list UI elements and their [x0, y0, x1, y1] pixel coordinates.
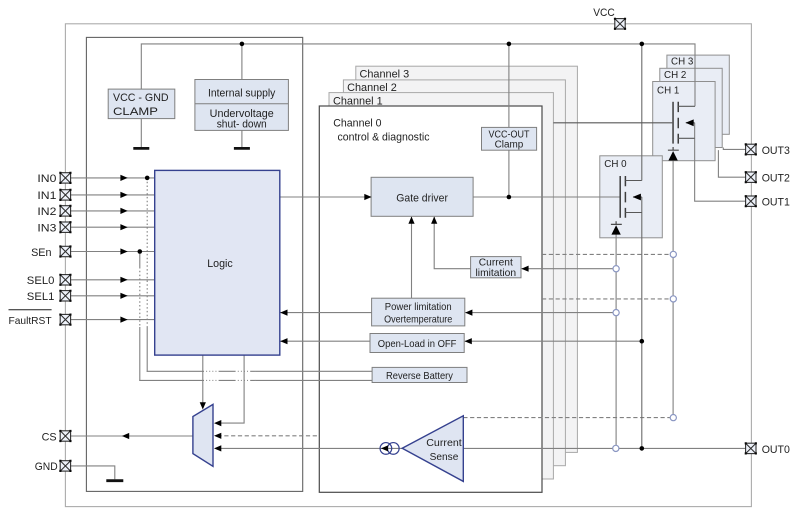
wire: reverse battery upper dash-dot — [187, 370, 256, 372]
pin VCC — [614, 18, 626, 30]
svg-text:Current: Current — [426, 438, 462, 449]
transistor CH1 body stub — [686, 122, 695, 124]
channel 0 box — [319, 106, 542, 492]
pin SEL1 — [59, 290, 71, 302]
channel 3 box — [356, 66, 578, 452]
svg-text:VCC: VCC — [593, 7, 615, 19]
svg-text:Internal supply: Internal supply — [208, 88, 276, 100]
svg-text:Channel 0: Channel 0 — [333, 118, 381, 130]
svg-text:Power limitation: Power limitation — [385, 302, 452, 313]
arrow: into gate driver — [364, 194, 371, 200]
svg-text:IN3: IN3 — [37, 223, 56, 235]
transistor CH0 body arrow — [633, 194, 641, 201]
svg-text:shut- down: shut- down — [217, 118, 267, 130]
node: rail-clamp junction — [507, 42, 512, 47]
svg-text:SEn: SEn — [31, 247, 51, 259]
pin IN0 — [59, 172, 71, 184]
transistor CH1 drain stub — [678, 105, 695, 107]
wire: CH0 drain to VCC rail — [641, 44, 643, 181]
arrow: SEL0 — [120, 277, 127, 283]
svg-text:Gate driver: Gate driver — [396, 192, 448, 204]
svg-text:IN0: IN0 — [37, 173, 56, 185]
wire: CH1 gate from channel 1 — [553, 122, 673, 124]
node: open-load source junction — [640, 339, 645, 344]
internal supply box — [195, 80, 289, 131]
node: clamp-gate junction — [507, 195, 512, 200]
current mirror circle right — [387, 443, 399, 455]
wire: CH1 diode sense column — [672, 161, 674, 415]
svg-text:Overtemperature: Overtemperature — [384, 315, 452, 326]
diode CH0 cathode tick — [611, 221, 622, 224]
open-load box — [370, 334, 464, 353]
wire: SEn bus elbow to reverse battery — [139, 379, 187, 381]
wire: logic to gate driver — [280, 196, 371, 198]
wire: CH0 sense to current limitation — [522, 268, 614, 270]
wire: CH2 to OUT2 — [718, 150, 745, 177]
node: rail-CH0 drain junction — [640, 42, 645, 47]
wire: IN1 to logic — [71, 194, 155, 196]
CH3 output stage box — [667, 55, 729, 134]
transistor CH0 drain stub — [625, 180, 641, 182]
current mirror circle left — [380, 443, 392, 455]
node: CH1 replica tap sense — [670, 415, 676, 421]
svg-text:Channel 2: Channel 2 — [347, 82, 397, 94]
pin GND — [59, 460, 71, 472]
pin CS — [59, 430, 71, 442]
arrow: into current limitation — [521, 266, 528, 272]
diode CH1 cathode tick — [668, 147, 679, 150]
svg-text:CH 0: CH 0 — [604, 159, 627, 170]
arrow: SEL1 — [120, 293, 127, 299]
channel 2 box — [343, 80, 565, 466]
diode CH1 body diode — [668, 151, 677, 160]
wire: CH0 source column — [641, 197, 643, 448]
wire: SEn to logic — [71, 251, 155, 253]
svg-text:SEL1: SEL1 — [27, 291, 55, 303]
svg-text:Logic: Logic — [207, 258, 233, 270]
svg-text:SEL0: SEL0 — [27, 275, 55, 287]
svg-text:IN2: IN2 — [37, 206, 56, 218]
svg-text:Reverse Battery: Reverse Battery — [386, 371, 454, 382]
svg-text:GND: GND — [35, 461, 58, 473]
wire: undervoltage to ground — [241, 130, 243, 147]
svg-text:OUT3: OUT3 — [762, 145, 790, 157]
wire: reverse battery lower dash-dot — [187, 379, 256, 381]
node: CH1 replica tap current limitation — [670, 251, 676, 257]
svg-text:CH 2: CH 2 — [664, 70, 687, 81]
wire: SEL1 to logic — [71, 295, 155, 297]
pin OUT3 — [745, 143, 757, 155]
svg-text:CS: CS — [42, 432, 57, 444]
svg-text:Channel 3: Channel 3 — [360, 68, 410, 80]
label FaultRST overline — [9, 309, 52, 311]
arrow: mux input 2 — [214, 433, 221, 439]
svg-text:CLAMP: CLAMP — [113, 106, 158, 118]
arrow: open-load into logic — [280, 338, 287, 344]
svg-text:OUT2: OUT2 — [762, 173, 790, 185]
wire: VCC-OUT clamp to gate line — [508, 150, 510, 197]
pin IN1 — [59, 189, 71, 201]
wire: logic to mux input 1 — [218, 355, 245, 423]
wire: IN0 dotted bus vertical — [146, 178, 148, 327]
wire: internal VCC rail — [141, 44, 695, 106]
channel 1 box — [329, 93, 553, 479]
wire: reverse battery upper solid — [256, 370, 372, 372]
wire: rail to VCC-OUT clamp — [508, 44, 510, 128]
arrow: mux input 1 — [214, 420, 221, 426]
wire: SEn dotted bus vertical — [139, 252, 141, 268]
svg-text:Clamp: Clamp — [495, 140, 524, 151]
wire: dashed replica sense line — [463, 417, 670, 419]
arrow: FaultRST — [120, 317, 127, 323]
wire: IN0 to logic — [71, 177, 155, 179]
svg-text:OUT1: OUT1 — [762, 197, 790, 209]
diode CH0 body diode — [611, 225, 620, 234]
node: OUT0 source junction — [640, 446, 645, 451]
logic block — [155, 170, 280, 355]
transistor CH0 channel segments — [624, 176, 626, 218]
wire: power limitation to gate driver — [411, 217, 413, 298]
arrow: mux input 3 — [214, 445, 221, 451]
transistor CH1 gate bar — [672, 102, 674, 144]
internal supply divider — [195, 103, 289, 105]
svg-text:IN1: IN1 — [37, 190, 56, 202]
wire: clamp to ground — [140, 119, 142, 147]
ground: GND pin — [106, 479, 123, 482]
arrow: mux select down — [200, 402, 206, 409]
wire: OUT0 to current sense — [463, 447, 745, 449]
wire: IN3 to logic — [71, 226, 155, 228]
wire: CH3 to OUT3 — [723, 148, 745, 150]
svg-text:OUT0: OUT0 — [762, 444, 790, 456]
node: CH1 replica tap power limitation — [670, 296, 676, 302]
wire: mux input 2 dashed — [218, 435, 320, 437]
wire: rail to internal supply — [241, 44, 243, 80]
transistor CH0 body stub — [633, 196, 642, 198]
svg-text:FaultRST: FaultRST — [9, 316, 53, 327]
arrow: into open-load box — [465, 338, 472, 344]
arrow: SEn — [120, 248, 127, 254]
VCC-OUT clamp box — [482, 127, 537, 150]
wire: CH1 source to OUT1 — [695, 123, 746, 201]
arrow: IN0 — [120, 175, 127, 181]
svg-text:Open-Load in OFF: Open-Load in OFF — [378, 339, 457, 350]
current mirror arrow — [381, 445, 388, 451]
wire: power limitation to logic — [281, 312, 372, 314]
ground: VCC-GND clamp — [133, 147, 149, 150]
ground: undervoltage — [234, 147, 250, 150]
wire: CH0 source to open-load — [465, 340, 642, 342]
wire: current sense to mux input 3 — [218, 447, 403, 449]
svg-text:control & diagnostic: control & diagnostic — [338, 132, 431, 144]
wire: open-load to logic — [281, 340, 371, 342]
node: IN0 bus junction — [145, 176, 150, 181]
arrow: IN1 — [120, 192, 127, 198]
wire: dashed replica to power limitation — [542, 298, 670, 300]
wire: IN0 bus elbow to reverse battery — [147, 370, 187, 372]
VCC-GND clamp box — [108, 89, 175, 119]
arrow: CS output — [122, 433, 129, 439]
wire: logic to mux select — [202, 355, 204, 402]
pin FaultRST — [59, 314, 71, 326]
svg-text:Channel 1: Channel 1 — [333, 95, 383, 107]
mux U1 — [193, 404, 213, 466]
transistor CH0 gate bar — [619, 176, 621, 218]
arrow: current limitation up — [431, 217, 437, 224]
wire: CH0 diode sense column — [615, 234, 617, 445]
wire: mux to CS — [71, 435, 193, 437]
reverse battery box — [372, 367, 467, 382]
node: rail-supply junction — [240, 42, 245, 47]
wire: dashed replica to current limitation — [542, 253, 670, 255]
control block outline — [86, 37, 302, 491]
transistor CH0 source stub — [625, 212, 641, 214]
svg-text:VCC - GND: VCC - GND — [113, 92, 169, 104]
wire: SEL0 to logic — [71, 279, 155, 281]
node: CH0 sense tap OUT0 line — [613, 445, 619, 451]
transistor CH1 body arrow — [686, 119, 694, 126]
arrow: power limitation into logic — [280, 310, 287, 316]
wire: CH0 sense to power limitation — [466, 312, 614, 314]
svg-text:Sense: Sense — [430, 452, 459, 463]
pin SEn — [59, 245, 71, 257]
gate driver box — [371, 177, 473, 216]
pin OUT1 — [745, 195, 757, 207]
svg-text:CH 3: CH 3 — [671, 57, 694, 68]
pin SEL0 — [59, 274, 71, 286]
node: SEn bus junction — [138, 249, 143, 254]
wire: GND pin to ground — [71, 466, 115, 479]
transistor CH1 source stub — [678, 137, 694, 139]
wire: gate driver to CH0 gate — [473, 196, 620, 198]
arrow: IN2 — [120, 208, 127, 214]
arrow: power limitation up — [408, 217, 414, 224]
power limitation box — [372, 298, 465, 326]
CH1 output stage box — [653, 82, 715, 161]
pin OUT0 — [745, 442, 757, 454]
wire: IN2 to logic — [71, 210, 155, 212]
wire: reverse battery lower solid — [256, 379, 372, 381]
arrow: into power limitation box — [465, 310, 472, 316]
current sense amplifier — [402, 416, 463, 482]
node: CH0 sense tap current limitation — [613, 266, 619, 272]
wire: FaultRST to logic — [71, 319, 155, 321]
svg-text:limitation: limitation — [476, 268, 517, 279]
current limitation box — [471, 257, 521, 278]
wire: current limitation to gate driver — [434, 217, 470, 269]
svg-text:CH 1: CH 1 — [657, 86, 680, 97]
pin IN3 — [59, 221, 71, 233]
CH2 output stage box — [660, 68, 722, 147]
arrow: IN3 — [120, 224, 127, 230]
CH0 output stage box — [600, 156, 663, 238]
transistor CH1 channel segments — [677, 102, 679, 144]
pin OUT2 — [745, 171, 757, 183]
svg-text:Current: Current — [479, 258, 513, 269]
pin IN2 — [59, 205, 71, 217]
node: CH0 sense tap power limitation — [613, 310, 619, 316]
